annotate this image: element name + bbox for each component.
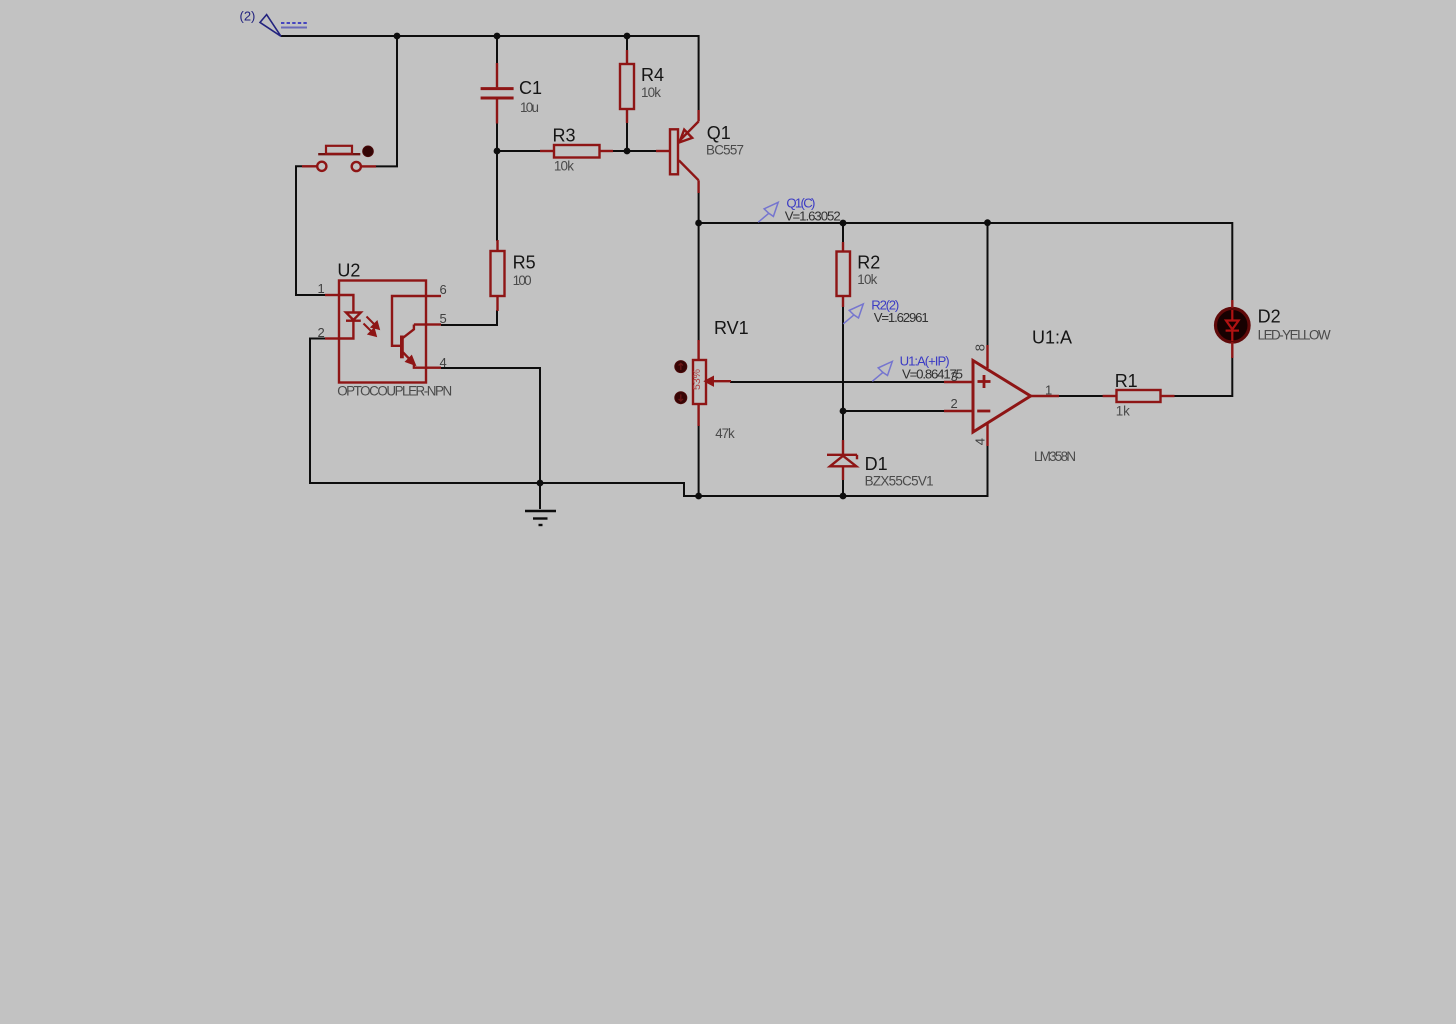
terminal dashed name	[281, 22, 307, 24]
U2 light arrows	[364, 317, 379, 336]
switch actuator dot	[363, 146, 374, 157]
node opamp V+	[984, 219, 991, 226]
svg-text:R5: R5	[513, 253, 536, 273]
resistor R4	[620, 50, 634, 123]
node R3-R4	[624, 148, 631, 155]
svg-text:V=0.864175: V=0.864175	[902, 367, 963, 382]
wire top rail	[281, 36, 699, 110]
svg-text:10k: 10k	[857, 272, 877, 287]
op-amp pin stubs	[944, 345, 1059, 446]
terminal triangle	[260, 15, 281, 37]
wire RV1 bottom	[698, 425, 700, 496]
wire op-amp pin8	[987, 223, 989, 346]
wire RV1 wiper to op-amp plus input	[730, 381, 944, 383]
svg-text:R4: R4	[641, 65, 664, 85]
resistor R2	[837, 242, 851, 307]
svg-text:2: 2	[951, 396, 958, 411]
probe arrow U1:A(+IP)	[872, 361, 892, 381]
svg-text:53%: 53%	[691, 369, 703, 390]
svg-text:Q1: Q1	[707, 123, 731, 143]
node RV1 bottom	[695, 493, 702, 500]
svg-text:2: 2	[318, 325, 325, 340]
node minus input	[840, 408, 847, 415]
optocoupler U2 box	[339, 281, 426, 383]
wire R4 bottom	[626, 122, 628, 151]
svg-text:U1:A: U1:A	[1032, 328, 1072, 348]
node D1 bottom	[840, 493, 847, 500]
wire D1 bottom	[842, 479, 844, 496]
ground	[525, 511, 556, 525]
wire U2 pin4 to ground	[441, 368, 540, 509]
junction dots	[394, 33, 991, 500]
wire U2 pin2 down and bottom run	[310, 339, 699, 497]
svg-text:R3: R3	[553, 126, 576, 146]
node ground join	[537, 480, 544, 487]
wire switch left down to U2 pin1	[296, 166, 325, 295]
U2 pin stubs	[325, 295, 441, 368]
svg-text:LM358N: LM358N	[1034, 449, 1076, 464]
node R2 top	[840, 220, 847, 227]
wire R3 left	[497, 150, 541, 152]
RV1 buttons	[675, 361, 687, 373]
wire switch right to rail	[376, 36, 398, 166]
svg-text:LED-YELLOW: LED-YELLOW	[1258, 328, 1331, 343]
node R3-C1	[494, 148, 501, 155]
wire R4 top	[626, 36, 628, 51]
zener D1	[827, 440, 857, 480]
wire C1 bottom to R5 top	[496, 123, 498, 242]
wire R3 right to Q1 base	[612, 150, 656, 152]
svg-text:U2: U2	[337, 261, 360, 281]
resistor R1	[1103, 390, 1175, 402]
resistor R5	[491, 240, 505, 311]
U2 internal phototransistor	[392, 296, 426, 368]
svg-text:1k: 1k	[1116, 404, 1130, 419]
wire C1 top	[496, 36, 498, 64]
U2 internal LED	[339, 295, 361, 339]
probe arrow R2(2)	[843, 304, 863, 324]
wire mid rail to D2 top	[699, 223, 1233, 300]
svg-text:6: 6	[440, 282, 447, 297]
svg-text:D2: D2	[1258, 307, 1281, 327]
svg-text:10k: 10k	[641, 85, 661, 100]
svg-text:V=1.63052: V=1.63052	[785, 209, 841, 224]
off-page terminal (2)	[240, 9, 308, 37]
wire R2 top	[842, 223, 844, 243]
push button switch	[302, 146, 376, 171]
svg-text:R2: R2	[857, 253, 880, 273]
resistor R3	[540, 145, 613, 158]
svg-text:(2): (2)	[240, 9, 256, 24]
svg-text:1: 1	[318, 281, 325, 296]
svg-text:BZX55C5V1: BZX55C5V1	[865, 474, 934, 489]
svg-text:10k: 10k	[554, 159, 574, 174]
node rail-switch	[394, 33, 401, 40]
capacitor C1	[481, 63, 514, 124]
svg-text:4: 4	[440, 355, 447, 370]
wire Q1 collector down	[698, 192, 700, 223]
svg-text:V=1.62961: V=1.62961	[874, 310, 929, 325]
svg-text:R1: R1	[1115, 371, 1138, 391]
transistor Q1	[656, 110, 699, 193]
terminal underline	[281, 27, 307, 29]
wire op-amp out to R1	[1058, 395, 1103, 397]
svg-text:D1: D1	[865, 454, 888, 474]
potentiometer RV1	[693, 340, 731, 426]
op-amp U1:A	[973, 361, 1031, 433]
wire R2 bottom to D1	[842, 306, 844, 441]
wire R1 to D2 bottom	[1174, 357, 1232, 396]
svg-text:RV1: RV1	[714, 318, 749, 338]
wire bottom rail to op-amp pin4	[699, 445, 988, 496]
svg-text:BC557: BC557	[706, 143, 744, 158]
probe arrow Q1(C)	[758, 202, 778, 222]
wire rail down to RV1 top	[698, 223, 700, 341]
svg-text:4: 4	[973, 438, 988, 445]
node rail-R4	[624, 33, 631, 40]
svg-text:8: 8	[973, 344, 988, 351]
svg-text:10u: 10u	[520, 100, 539, 115]
svg-text:OPTOCOUPLER-NPN: OPTOCOUPLER-NPN	[337, 384, 452, 399]
svg-text:1: 1	[1045, 382, 1052, 397]
wire node to op-amp minus input	[843, 410, 944, 412]
node rail-C1	[494, 33, 501, 40]
LED D2	[1216, 300, 1250, 358]
svg-text:C1: C1	[519, 78, 542, 98]
wire U2 pin5 to R5 bottom	[441, 310, 497, 325]
PROBES	[758, 196, 963, 382]
svg-text:47k: 47k	[715, 426, 735, 441]
svg-text:100: 100	[513, 273, 532, 288]
node Q1 collector	[695, 220, 702, 227]
svg-text:5: 5	[440, 311, 447, 326]
